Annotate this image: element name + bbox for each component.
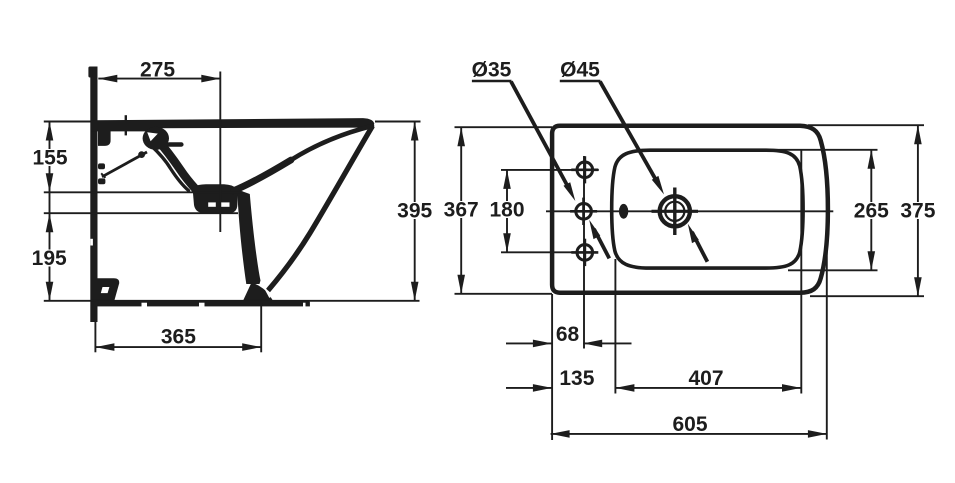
dim 135 left arrowhead (533, 384, 552, 392)
floor thick bar segment 2 (147, 300, 199, 306)
ext body bottom right (810, 295, 924, 297)
dimension line 265 (870, 150, 872, 270)
label 265 (854, 200, 889, 223)
drain inner ring (665, 202, 684, 221)
foot white sliver (264, 286, 270, 298)
svg-text:367: 367 (444, 199, 479, 222)
svg-text:265: 265 (854, 200, 889, 223)
extension line top rim right (375, 121, 421, 123)
dimension line 155-195 vertical (49, 122, 51, 301)
swoosh head (143, 127, 169, 150)
label 395 (397, 200, 432, 223)
ext basin right vertical (800, 150, 802, 394)
svg-text:Ø35: Ø35 (472, 59, 512, 82)
front foot (243, 283, 273, 301)
fixing hole tick (125, 115, 127, 135)
back bracket (98, 131, 111, 146)
supply pipe line (102, 152, 147, 177)
arrow 265 up (868, 150, 876, 169)
arrow 367 down (457, 275, 465, 294)
ext body left bottom vertical (551, 294, 553, 440)
arrow 275 right (201, 75, 220, 83)
faucet centreline vertical (583, 156, 585, 349)
arrow 375 up (914, 125, 922, 144)
arrow 367 up (457, 127, 465, 146)
wall top bump (88, 67, 92, 78)
floor thick bar segment 1 (96, 300, 142, 306)
floor thin line (44, 300, 420, 302)
ext basin left vertical (614, 259, 616, 394)
drain crosshair vertical (673, 188, 676, 236)
supply pipe end tick (101, 173, 105, 178)
svg-text:275: 275 (140, 59, 175, 82)
dimension line 180 (506, 170, 508, 252)
bowl back inner curve (234, 126, 373, 191)
dim 68 left arrow line (506, 342, 552, 344)
drain hidden dash 1 (208, 202, 216, 206)
bowl bottom blob (193, 184, 238, 213)
label 155 (32, 147, 67, 170)
svg-text:68: 68 (556, 323, 580, 346)
arrow 195 up (46, 213, 54, 232)
underline D35 (472, 80, 512, 83)
body outline (552, 126, 828, 293)
label 180 (489, 199, 524, 222)
leader D45 second arrow line (692, 232, 707, 262)
centre axis line (546, 210, 833, 212)
rim back swoosh (158, 140, 196, 189)
arrow 155 up (46, 122, 54, 141)
arrow 180 up (503, 170, 511, 189)
dim 68 right arrow line (583, 342, 631, 344)
ext basin top right (770, 149, 878, 151)
arrow 180 down (503, 233, 511, 252)
arrow 407 left (615, 384, 634, 392)
dimension line 395 (414, 122, 416, 301)
svg-text:180: 180 (489, 199, 524, 222)
arrow 365 right (242, 343, 261, 351)
svg-text:365: 365 (161, 326, 196, 349)
ext body top left (455, 126, 553, 128)
svg-text:605: 605 (672, 413, 707, 436)
extension line 365 left (94, 308, 96, 352)
arrow 155 down (46, 173, 54, 192)
leader D45 (600, 82, 656, 181)
dimension line 375 (917, 125, 919, 296)
arrow 395 down (411, 282, 419, 301)
leader D45 second arrowhead (688, 224, 699, 243)
arrow 395 up (411, 122, 419, 141)
bowl back inner curve lower (234, 160, 292, 191)
arrow 605 right (808, 430, 827, 438)
water inlet nub (169, 142, 181, 146)
crosshair line top hole (501, 169, 599, 171)
dimension line 367 (460, 127, 462, 294)
svg-text:195: 195 (32, 247, 67, 270)
svg-text:395: 395 (397, 200, 432, 223)
faucet hole middle (576, 204, 592, 220)
arrow 265 down (868, 251, 876, 270)
floor thick bar top strip (96, 300, 309, 302)
basin rim (612, 150, 803, 268)
extension line 275 right (219, 72, 221, 233)
bolt bump upper (98, 163, 105, 169)
swoosh left thin line (151, 145, 189, 191)
back foot block (97, 278, 120, 300)
arrow 195 down (46, 282, 54, 301)
dimension line 365 (95, 346, 261, 348)
extension line top rim left (44, 121, 100, 123)
svg-text:407: 407 (688, 367, 723, 390)
dim 135 left arrow line (506, 387, 552, 389)
leader D35 second arrowhead (589, 220, 600, 239)
dimension line 275 (98, 78, 220, 80)
ext body top right (808, 124, 924, 126)
wall line (90, 67, 97, 323)
arrow 365 left (95, 343, 114, 351)
drain outer ring (660, 196, 690, 226)
dim 68 left arrowhead (533, 340, 552, 348)
leader D35 second arrow line (594, 229, 609, 258)
dim 68 right arrowhead (583, 340, 602, 348)
ext body bottom left (455, 293, 553, 295)
leader D35 arrowhead (564, 182, 576, 201)
dimension line 407 (615, 387, 801, 389)
svg-text:Ø45: Ø45 (560, 59, 600, 82)
inlet slot dot (619, 204, 628, 219)
label 195 (32, 247, 67, 270)
faucet hole top (577, 162, 593, 178)
back foot white notch (101, 287, 110, 293)
front outer edge (268, 126, 373, 291)
svg-text:155: 155 (32, 147, 67, 170)
label 375 (900, 200, 935, 223)
underline D45 (560, 80, 601, 83)
rim top surface (91, 118, 374, 131)
floor bar end dot (306, 302, 310, 307)
arrow 407 right (782, 384, 801, 392)
dimension line 605 (551, 433, 827, 435)
faucet hole bottom (577, 245, 593, 261)
extension line 195 top (44, 212, 238, 214)
floor thick bar segment 3 (205, 300, 304, 306)
supply pipe ball (138, 151, 145, 158)
svg-text:375: 375 (900, 200, 935, 223)
bolt bump lower (98, 178, 105, 184)
crosshair line bottom hole (501, 251, 596, 253)
leader D45 arrowhead (652, 176, 664, 195)
extension line 365 right (260, 303, 262, 352)
drain hidden dash 2 (221, 202, 230, 206)
label 367 (444, 199, 479, 222)
ext basin bottom right (788, 269, 878, 271)
leader D35 (511, 82, 567, 186)
extension line 155 bottom (44, 191, 243, 193)
wall notch (90, 239, 93, 246)
leg left edge (237, 190, 260, 285)
svg-text:135: 135 (559, 367, 594, 390)
ext body right vertical (826, 250, 828, 440)
arrow 275 left (98, 75, 117, 83)
arrow 375 down (914, 277, 922, 296)
arrow 605 left (551, 430, 570, 438)
swoosh white notch (147, 132, 158, 141)
drain crosshair horizontal (652, 210, 699, 213)
